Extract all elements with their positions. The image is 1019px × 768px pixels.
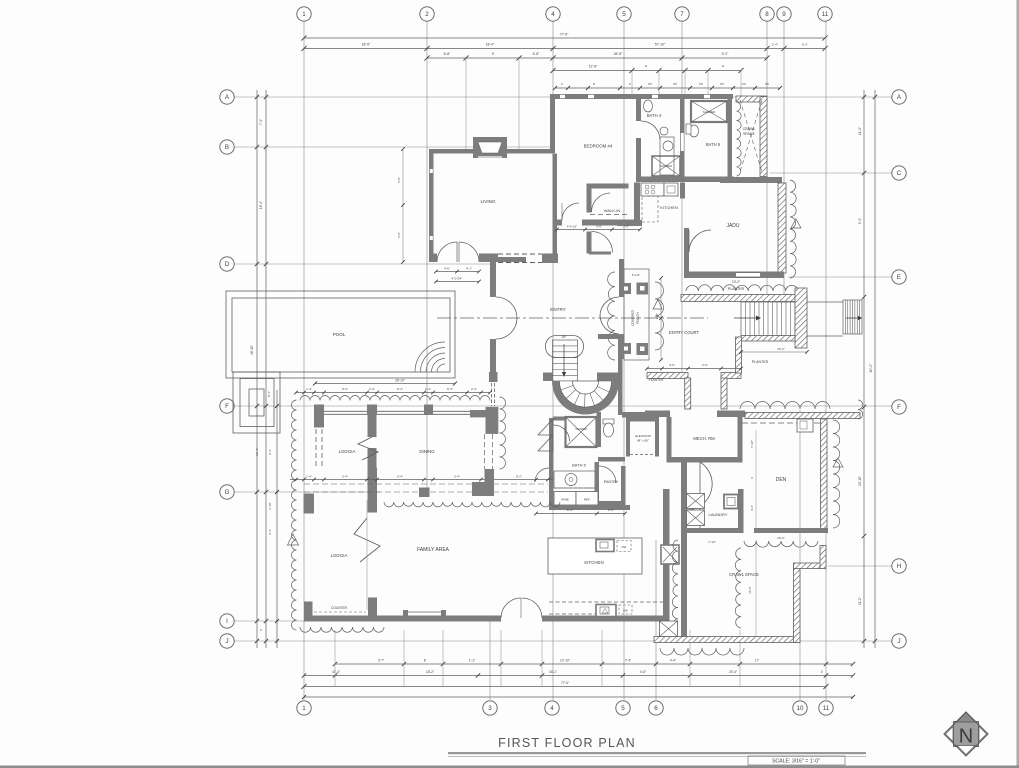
svg-text:F: F (897, 404, 901, 411)
grid bubble top 11 (818, 7, 832, 21)
svg-text:1'-4": 1'-4" (425, 387, 431, 391)
bath fixtures (644, 100, 653, 112)
svg-text:LOGGIA: LOGGIA (331, 553, 348, 558)
entry west wall block (489, 372, 498, 382)
vestibule west wall (587, 232, 592, 254)
svg-text:2'-8": 2'-8" (623, 225, 629, 229)
svg-text:8'-2": 8'-2" (516, 475, 522, 479)
walkway dashed lines (304, 483, 548, 485)
bedroom wing top wall (550, 94, 733, 99)
bottom dimension tier4 (304, 696, 853, 698)
svg-text:15'-2": 15'-2" (777, 347, 785, 351)
walkin left wall (587, 189, 592, 213)
svg-text:LOGGIA: LOGGIA (339, 449, 356, 454)
grid column line 5 (623, 21, 625, 700)
planter below jadu scallop (686, 285, 798, 291)
svg-text:PANTRY: PANTRY (604, 480, 619, 484)
right dimension vertical lines (863, 90, 865, 648)
svg-text:5'-1/2": 5'-1/2" (632, 273, 640, 277)
svg-text:57'-10": 57'-10" (655, 43, 666, 47)
svg-text:G: G (225, 489, 230, 496)
porch column NW (621, 283, 631, 294)
toilet room wall (597, 412, 602, 447)
grid bubble left D (220, 257, 234, 271)
bottom dimension tier2 (304, 675, 853, 677)
entry west wall upper (490, 262, 496, 297)
porch window triangle (653, 300, 662, 310)
svg-text:18'-4": 18'-4" (486, 43, 495, 47)
bedroom4 east wall lower (636, 138, 641, 182)
svg-text:BATH 5: BATH 5 (572, 463, 586, 468)
grid bubble top 7 (675, 7, 689, 21)
grid bubble bottom 5 (616, 701, 630, 715)
north arrow (954, 722, 979, 747)
top dimension line tier4 (553, 70, 741, 72)
walkin door arc (592, 193, 611, 212)
svg-text:4'-0 3/4": 4'-0 3/4" (452, 277, 463, 281)
jadu kitchen stove (641, 183, 664, 196)
loggia top dim row (296, 392, 490, 394)
svg-text:4'-1": 4'-1" (466, 267, 472, 271)
grid bubble right H (892, 559, 906, 573)
svg-text:48" x 60": 48" x 60" (637, 439, 649, 443)
den top scallop (740, 402, 830, 409)
grid row line E (right) (788, 276, 892, 278)
svg-text:B: B (225, 144, 229, 151)
svg-text:I: I (226, 618, 228, 625)
svg-text:5'6: 5'6 (765, 82, 769, 86)
svg-text:1'-1": 1'-1" (469, 659, 475, 663)
svg-text:DINING: DINING (419, 449, 435, 454)
top dimension line 77'-6" (304, 37, 825, 39)
svg-text:5'-8": 5'-8" (397, 177, 401, 183)
planter hatched band (681, 295, 807, 302)
svg-text:4'-4 1/2": 4'-4 1/2" (567, 225, 577, 229)
entry east double door (600, 297, 619, 316)
loggia east scallop (500, 397, 506, 469)
svg-text:DW: DW (623, 609, 628, 613)
grid column line 11 (825, 21, 827, 700)
walkway post mid (419, 488, 430, 498)
svg-text:2: 2 (425, 11, 429, 18)
svg-text:5: 5 (622, 11, 626, 18)
laundry bottom wall (683, 528, 741, 533)
walkway post W (304, 494, 315, 514)
jadu bottom wall (684, 272, 784, 279)
grid bubble bottom 6 (649, 701, 663, 715)
triangle marker jadu (791, 219, 801, 228)
svg-text:6'-4": 6'-4" (342, 475, 348, 479)
shower lower bath5 (566, 417, 597, 447)
crawlspace west solid wall (728, 99, 733, 178)
dining post NE (470, 410, 492, 417)
laundry sink box (724, 495, 738, 509)
elevator walls (626, 418, 630, 457)
living-entry dashed opening (498, 253, 542, 255)
pantry door arc (599, 466, 616, 483)
covered porch scallop cloud (608, 272, 615, 360)
svg-text:6'-4": 6'-4" (454, 475, 460, 479)
svg-text:5'6: 5'6 (720, 82, 724, 86)
grid bubble left J (220, 634, 234, 648)
walkway post E (485, 469, 495, 496)
svg-text:5'6: 5'6 (673, 82, 677, 86)
grid column line 9 (783, 21, 785, 300)
main stair upper flight (553, 340, 578, 381)
crawlspace diagonals (740, 100, 762, 172)
svg-text:ELEVATOR: ELEVATOR (635, 434, 651, 438)
grid bubble top 4 (546, 7, 560, 21)
svg-text:77'-6": 77'-6" (561, 681, 569, 685)
grid bubble left A (220, 90, 234, 104)
grid bubble left F (220, 399, 234, 413)
right stair (843, 300, 862, 334)
hall bifold doors (538, 419, 553, 435)
wine ref bottom wall (549, 505, 630, 510)
svg-text:ENTRY COURT: ENTRY COURT (669, 330, 699, 335)
bottom dimension tier3 (304, 686, 826, 688)
entry court vertical dim (660, 278, 662, 360)
crawl2 east hatched wall (794, 564, 801, 643)
bath bottom wall (636, 177, 734, 183)
family-hall door arc (535, 468, 549, 482)
svg-text:4'-3": 4'-3" (750, 505, 754, 511)
entry court stairs (741, 302, 795, 336)
west wall lower (549, 468, 554, 505)
svg-text:5: 5 (621, 705, 625, 712)
main stair east wall (618, 339, 623, 415)
grid bubble right F (892, 400, 906, 414)
bath5 vanity (554, 471, 597, 488)
stair landing east block (597, 373, 622, 382)
svg-text:8': 8' (424, 659, 427, 663)
entry top wall (496, 257, 526, 262)
svg-text:MECH. RM: MECH. RM (693, 436, 715, 441)
grid bubble right J (892, 634, 906, 648)
svg-text:28'-10": 28'-10" (395, 379, 405, 383)
svg-text:8'-4": 8'-4" (342, 387, 348, 391)
porch column NE (637, 283, 649, 295)
F-line hatched wall east (745, 413, 860, 419)
svg-text:4'-6": 4'-6" (669, 363, 675, 367)
grid row line C (right) (770, 172, 892, 174)
planter dims (647, 368, 741, 370)
crawl2 sw xbox (660, 621, 678, 637)
walkway dim row (290, 479, 553, 481)
post mid (367, 405, 377, 416)
svg-text:25'-10": 25'-10" (858, 476, 862, 486)
grid row line B (234, 146, 553, 148)
svg-text:LIVING: LIVING (480, 199, 495, 204)
grid bubble bottom 1 (297, 701, 311, 715)
svg-text:C: C (897, 170, 902, 177)
svg-text:8'-4": 8'-4" (447, 387, 453, 391)
stair side hatched pier (795, 288, 807, 348)
entry west window dashed (491, 383, 493, 406)
living room bottom wall west block (429, 254, 437, 263)
svg-text:4'-4": 4'-4" (670, 659, 676, 663)
svg-text:CRAWL: CRAWL (743, 127, 756, 131)
den window box (797, 419, 813, 432)
den bottom wall (754, 528, 828, 533)
wine ref boxes (554, 492, 576, 506)
jadu top wall (720, 177, 782, 183)
grid bubble right C (892, 166, 906, 180)
grid column line 4 (552, 21, 554, 700)
vestibule door arc (592, 232, 613, 253)
svg-text:FAMILY AREA: FAMILY AREA (417, 547, 450, 553)
grid bubble left I (220, 614, 234, 628)
svg-text:N: N (959, 726, 973, 748)
grid bubble left G (220, 485, 234, 499)
svg-text:7'-10": 7'-10" (708, 540, 716, 544)
pool corner steps arcs (437, 364, 445, 372)
svg-text:4'-6": 4'-6" (640, 670, 646, 674)
loggia top scallop (300, 396, 490, 401)
svg-text:J: J (225, 638, 228, 645)
top dimension line tier2 (304, 48, 825, 50)
svg-text:BEDROOM #4: BEDROOM #4 (584, 144, 613, 149)
svg-text:8: 8 (765, 11, 769, 18)
grid column line 6 (bottom) (655, 540, 657, 700)
walkin bottom wall (582, 220, 639, 226)
grid bubble top 1 (297, 7, 311, 21)
loggia west scallop (292, 400, 297, 630)
pool inner rim (232, 298, 450, 372)
svg-text:2'-6": 2'-6" (702, 363, 708, 367)
grid bubble bottom 10 (793, 701, 807, 715)
loggia bottom scallop (300, 627, 384, 632)
kitchen west wall (634, 183, 640, 226)
grid bubble left B (220, 140, 234, 154)
svg-text:E: E (897, 274, 901, 281)
hall south wall stub (553, 417, 566, 421)
main stair rail capsule (546, 336, 584, 358)
svg-text:11'-2": 11'-2" (858, 597, 862, 605)
svg-text:COVERED: COVERED (631, 309, 635, 325)
svg-text:LAUNDRY: LAUNDRY (708, 512, 727, 517)
crawl2 west wall (681, 533, 687, 637)
svg-text:11'-4": 11'-4" (858, 127, 862, 135)
grid row line J (234, 640, 892, 642)
crawl2 bottom scallop (660, 648, 744, 655)
toilet (603, 419, 614, 424)
crawl2 mid scallop (735, 548, 741, 628)
svg-text:18'-2": 18'-2" (426, 670, 434, 674)
triangle marker den (833, 458, 843, 467)
mech rm east wall (738, 417, 743, 463)
crawl2 top scallop (744, 541, 818, 547)
grid bubble right A (892, 90, 906, 104)
svg-text:6'-2": 6'-2" (802, 43, 808, 47)
living room top wall (429, 149, 553, 154)
left dimension vertical lines (256, 90, 258, 648)
kitchen island (548, 538, 642, 574)
counter dw (619, 605, 632, 614)
bath block door (554, 425, 570, 441)
svg-text:6'-1": 6'-1" (567, 508, 573, 512)
svg-text:11: 11 (822, 11, 829, 18)
svg-text:3: 3 (488, 705, 492, 712)
family south wall east (542, 616, 664, 622)
stair winder steps (560, 381, 612, 407)
svg-text:1: 1 (302, 11, 306, 18)
grid bubble bottom 3 (483, 701, 497, 715)
main stair curved well annulus (552, 381, 619, 414)
grid bubble bottom 11 (819, 701, 833, 715)
svg-text:9: 9 (782, 11, 786, 18)
loggia top window wall (324, 410, 367, 412)
laundry west wall (681, 461, 687, 535)
page edge bottom (0, 766, 1019, 768)
jadu kitchen sink box (664, 183, 678, 196)
jadu west wall (684, 228, 689, 273)
svg-text:12'-4": 12'-4" (255, 448, 259, 456)
grid bubble top 8 (760, 7, 774, 21)
svg-text:9'-4": 9'-4" (858, 218, 862, 224)
family south double door (501, 598, 521, 618)
svg-text:4'-2": 4'-2" (608, 508, 614, 512)
pool outer rim (226, 291, 455, 378)
porch column SE (637, 343, 649, 355)
bottom dim extension lines (334, 630, 336, 686)
svg-text:5'6: 5'6 (699, 82, 703, 86)
svg-text:5'-4": 5'-4" (267, 391, 271, 397)
jadu east scallop (790, 180, 796, 278)
kitchen bottom wall (617, 220, 642, 226)
grid column line 3 (bottom) (489, 616, 491, 700)
west wall of bath block (549, 418, 554, 468)
svg-text:J: J (897, 638, 900, 645)
entry west double door (496, 297, 517, 318)
bath4 shower lower (652, 156, 680, 176)
svg-text:2'-4": 2'-4" (471, 387, 477, 391)
bedroom wing west wall (550, 94, 555, 153)
svg-text:DW: DW (622, 545, 627, 549)
stair landing west block (543, 373, 553, 382)
bath divider wall (680, 99, 685, 182)
scale box (748, 756, 845, 765)
svg-text:PLANTER: PLANTER (728, 287, 745, 291)
counter sink (596, 605, 616, 617)
spa outer (233, 372, 280, 433)
svg-text:28'-8": 28'-8" (614, 52, 623, 56)
wine ref dim row (536, 513, 625, 515)
dining west wall upper (368, 415, 377, 437)
svg-text:H: H (897, 563, 901, 570)
svg-text:9': 9' (492, 52, 495, 56)
planter wall hatched segments (647, 373, 688, 379)
family fireplace box (661, 545, 679, 564)
svg-text:14'-5": 14'-5" (748, 586, 752, 594)
F wall end cloud (858, 400, 863, 419)
title underline (448, 752, 866, 754)
porch column SW (621, 343, 631, 354)
svg-text:11: 11 (823, 705, 830, 712)
grid column line 8 (766, 21, 768, 300)
elevator door dashed (630, 454, 655, 456)
F-line wall west segment (645, 411, 670, 418)
entry east wall stubs (619, 259, 624, 297)
loggia west dashed wall (315, 429, 317, 468)
stair bottom hatched band (741, 336, 795, 342)
bedroom4 east wall upper (636, 99, 641, 121)
kitchen dim row (557, 229, 640, 231)
grid row line F (234, 405, 892, 407)
svg-text:3'-4": 3'-4" (268, 529, 272, 535)
grid column line 7 (681, 21, 683, 375)
mech rm bottom wall (667, 457, 743, 463)
svg-text:6'-8": 6'-8" (444, 52, 452, 56)
svg-text:7'-1/2": 7'-1/2" (750, 440, 754, 448)
walkin rod dashed (590, 214, 630, 216)
svg-text:4: 4 (550, 705, 554, 712)
jadu east wall hatched (778, 183, 786, 273)
crawlspace top hatched wall (736, 96, 767, 102)
laundry washer dryer (687, 494, 705, 509)
den east scallop (833, 420, 840, 528)
svg-text:1: 1 (302, 705, 306, 712)
svg-text:JADU: JADU (726, 223, 739, 229)
svg-text:9'-2": 9'-2" (722, 52, 730, 56)
crawlspace east wall hatched (760, 97, 767, 177)
svg-text:4': 4' (821, 670, 824, 674)
grid row line H (right) (828, 565, 892, 567)
landing lines (807, 301, 843, 303)
svg-text:3'-7": 3'-7" (378, 659, 384, 663)
svg-text:KITCHEN: KITCHEN (584, 560, 603, 565)
svg-text:7: 7 (680, 11, 684, 18)
svg-text:16'-1": 16'-1" (549, 670, 557, 674)
family east wall (663, 489, 670, 621)
svg-text:UP: UP (562, 335, 566, 339)
top dimension line tier5 (555, 87, 780, 89)
svg-text:13'-2": 13'-2" (732, 280, 740, 284)
grid bubble bottom 4 (545, 701, 559, 715)
svg-text:PLANTER: PLANTER (649, 378, 664, 382)
svg-text:SHOWER: SHOWER (575, 427, 587, 431)
window posts on south wall (403, 610, 408, 616)
island dw (617, 541, 631, 552)
crawl2 west scallop (672, 540, 678, 630)
vanity bath5 (660, 137, 674, 175)
svg-text:4': 4' (722, 65, 725, 69)
svg-text:19'-2": 19'-2" (777, 536, 785, 540)
dim row under living door (436, 271, 479, 273)
svg-text:2'-4": 2'-4" (369, 387, 375, 391)
jadu kitchen counter dashed (642, 196, 658, 222)
fireplace (473, 137, 507, 158)
den east hatched wall (821, 419, 828, 531)
svg-text:6'-4": 6'-4" (397, 475, 403, 479)
svg-text:20'-4": 20'-4" (729, 670, 737, 674)
pantry walls (595, 462, 600, 505)
svg-text:SHOWER: SHOWER (660, 164, 672, 168)
dining west wall lower (368, 448, 377, 468)
svg-text:ENTRY: ENTRY (550, 307, 566, 312)
laundry door arc (687, 462, 712, 530)
svg-text:48'-10": 48'-10" (250, 345, 254, 355)
dining big post SW (368, 468, 378, 513)
svg-text:1'-4": 1'-4" (306, 475, 312, 479)
svg-text:18'-6": 18'-6" (362, 43, 371, 47)
toilet room bottom wall (598, 457, 625, 462)
crawl2 step vertical hatched (820, 546, 826, 569)
svg-text:80'-0": 80'-0" (869, 363, 873, 372)
svg-text:WALK-IN: WALK-IN (604, 208, 621, 213)
den west dim line (755, 430, 757, 528)
grid column line 10 (bottom) (799, 410, 801, 700)
